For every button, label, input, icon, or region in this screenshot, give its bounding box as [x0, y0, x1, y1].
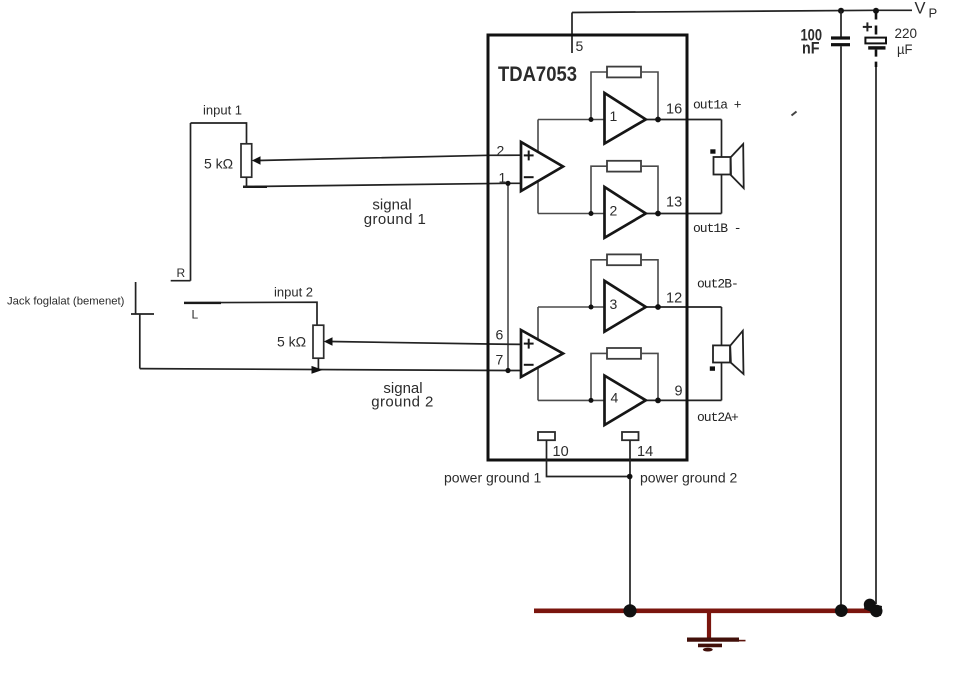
node VP label	[915, 0, 938, 21]
jack tip contact wire	[135, 282, 137, 314]
wire amp 1 input	[538, 119, 605, 121]
wire P1 bottom stub	[243, 177, 247, 186]
capacitor C2 220uF top dashed lead	[875, 11, 878, 38]
junction amp 2 input node	[589, 211, 594, 216]
wire C1 to ground bus	[840, 46, 842, 610]
svg-text:10: 10	[553, 444, 569, 460]
potentiometer P1 5k body	[241, 144, 252, 177]
junction amp 3 input node	[589, 305, 594, 310]
junction amp 4 output node	[655, 398, 661, 404]
svg-text:4: 4	[611, 390, 619, 406]
wire internal bus amp3-amp4 inputs	[537, 307, 539, 400]
svg-text:input 2: input 2	[274, 285, 313, 300]
wire amp 2 feedback right	[641, 166, 658, 213]
wire amp 4 input	[538, 399, 605, 401]
op-amp 1	[605, 93, 646, 144]
op-amp 4	[605, 376, 646, 425]
capacitor C1 100nF top lead	[840, 11, 842, 37]
svg-text:12: 12	[666, 291, 682, 307]
wire P2 bottom stub	[317, 358, 319, 369]
wire amp 3 input	[538, 306, 605, 308]
capacitor C2 bottom dashed lead	[875, 50, 878, 67]
junction C2 to VP rail	[873, 8, 879, 14]
wire amp 3 feedback left	[591, 260, 607, 307]
wire C2 to ground bus	[875, 67, 877, 604]
capacitor C1 100nF plates	[831, 36, 850, 46]
IC U1 TDA7053 package outline	[488, 35, 687, 460]
svg-text:2: 2	[497, 143, 505, 159]
wire pin 1 signal ground 1 from pot P1 bottom to op-amp A - input	[243, 183, 521, 186]
svg-text:out2A+: out2A+	[697, 410, 739, 425]
resistor feedback amp 1	[607, 67, 641, 78]
svg-text:ground 1: ground 1	[364, 211, 426, 228]
wire pin 6 from pot P2 wiper to op-amp B + input	[331, 342, 521, 345]
svg-text:7: 7	[496, 352, 504, 368]
svg-text:16: 16	[666, 102, 682, 118]
svg-text:ground 2: ground 2	[371, 394, 433, 411]
wire VP supply rail	[572, 10, 912, 12]
wire amp 2 feedback left	[591, 166, 607, 213]
arrow P2 wiper	[324, 337, 333, 345]
svg-text:Jack foglalat (bemenet): Jack foglalat (bemenet)	[7, 296, 125, 308]
arrow P1 wiper	[252, 156, 261, 164]
svg-text:L: L	[192, 308, 199, 322]
svg-text:5 kΩ: 5 kΩ	[277, 334, 306, 350]
wire internal link pin1-pin7	[507, 183, 509, 370]
svg-text:13: 13	[666, 195, 682, 211]
svg-text:5 kΩ: 5 kΩ	[204, 156, 233, 172]
wire pin 10 power ground 1	[547, 440, 630, 476]
svg-text:out2B-: out2B-	[697, 277, 738, 292]
wire pin 5 to VP rail	[571, 13, 573, 54]
wire speaker LS2 connection	[721, 307, 723, 400]
ground symbol bar 1	[687, 637, 739, 641]
potentiometer P2 5k body	[313, 325, 324, 358]
wire pin 16 output amp 1	[644, 119, 722, 121]
terminal R tick	[171, 280, 191, 282]
junction power grounds	[627, 474, 633, 480]
junction C2 wire to bus (blob)	[864, 599, 883, 618]
capacitor C2 polarity +	[863, 22, 872, 31]
pad pin 14	[622, 432, 639, 440]
junction pin14 wire to bus	[623, 604, 636, 617]
label 100 nF	[801, 26, 823, 58]
speaker LS2	[710, 331, 744, 374]
resistor feedback amp 2	[607, 161, 641, 172]
ground symbol bar 2	[698, 644, 722, 648]
label signal ground 2	[371, 380, 433, 411]
svg-text:1: 1	[499, 170, 507, 186]
junction pin 1 node	[505, 181, 510, 186]
op-amp 2	[605, 187, 646, 238]
svg-text:2: 2	[610, 203, 618, 219]
svg-text:P: P	[929, 6, 938, 21]
wire input 1 top	[191, 123, 247, 144]
wire signal ground 1 overdraw	[243, 186, 267, 188]
junction C1 wire to bus	[835, 604, 848, 617]
junction amp 1 input node	[589, 117, 594, 122]
wire jack drop	[139, 314, 141, 369]
junction C1 to VP rail	[838, 8, 844, 14]
wire amp 1 feedback right	[641, 72, 658, 120]
resistor feedback amp 4	[607, 348, 641, 359]
svg-text:5: 5	[576, 38, 584, 54]
label signal ground 1	[364, 197, 426, 229]
svg-text:power ground 2: power ground 2	[640, 470, 738, 486]
arrow P2 bottom signal ground	[312, 366, 323, 374]
wire pin 9 output amp 4	[644, 399, 722, 401]
junction amp 3 output node	[655, 304, 661, 310]
label 220 uF	[895, 26, 918, 57]
ground symbol stub	[707, 613, 711, 639]
svg-text:input 1: input 1	[203, 103, 242, 118]
svg-text:µF: µF	[897, 42, 913, 57]
junction amp 1 output node	[655, 117, 661, 123]
svg-text:14: 14	[637, 444, 653, 460]
wire speaker LS1 connection	[721, 120, 723, 214]
svg-text:out1B -: out1B -	[693, 221, 741, 236]
wire amp 4 feedback left	[591, 353, 607, 400]
svg-text:3: 3	[610, 296, 618, 312]
svg-text:1: 1	[610, 108, 618, 124]
op-amp 3	[605, 281, 646, 332]
ground symbol bar 3	[703, 648, 713, 652]
resistor feedback amp 3	[607, 254, 641, 265]
wire internal bus amp1-amp2 inputs	[537, 120, 539, 214]
junction amp 2 output node	[655, 211, 661, 217]
jack sleeve tick	[131, 313, 154, 315]
wire amp 3 feedback right	[641, 260, 658, 307]
wire input 1 left drop to R	[190, 123, 192, 281]
svg-text:220: 220	[895, 26, 918, 41]
svg-text:TDA7053: TDA7053	[498, 63, 577, 86]
svg-text:R: R	[177, 266, 186, 280]
svg-text:6: 6	[496, 327, 504, 343]
op-amp A (input amp channel 1)	[521, 142, 563, 191]
wire pin 7 signal ground 2 from jack to op-amp B - input	[140, 369, 521, 371]
svg-text:out1a +: out1a +	[693, 98, 742, 113]
pad pin 10	[538, 432, 555, 440]
wire pin 14 power ground 2 down to bus	[629, 440, 631, 611]
op-amp B (input amp channel 2)	[521, 330, 563, 377]
wire amp 2 input	[538, 213, 605, 215]
wire pin 12 output amp 3	[644, 306, 722, 308]
wire pin 2 from pot P1 wiper to op-amp A + input	[258, 155, 521, 160]
wire amp 1 feedback left	[591, 72, 607, 120]
junction amp 4 input node	[589, 398, 594, 403]
junction pin 7 node	[505, 368, 510, 373]
ground symbol bar 1 tail	[739, 640, 746, 642]
speaker LS1	[710, 144, 743, 188]
wire pin 13 output amp 2	[644, 213, 722, 215]
capacitor C2 220uF plates	[865, 38, 886, 44]
svg-text:9: 9	[675, 384, 683, 400]
svg-text:nF: nF	[802, 39, 820, 58]
stray mark	[792, 112, 797, 116]
wire amp 4 feedback right	[641, 353, 658, 400]
svg-text:power ground 1: power ground 1	[444, 470, 542, 486]
wire L to input 2	[184, 302, 317, 325]
wire L overdraw	[184, 302, 221, 304]
svg-text:V: V	[915, 0, 926, 18]
ground bus	[534, 608, 880, 613]
